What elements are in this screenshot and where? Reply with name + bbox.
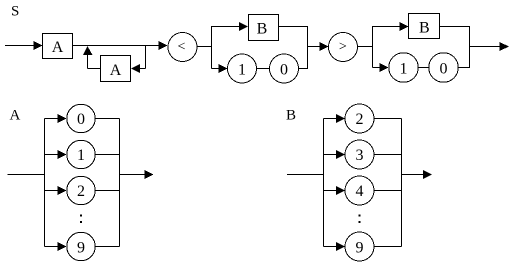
- wire A-diagram row1 in: [45, 154, 59, 156]
- circle 0 group1: [270, 54, 299, 83]
- wire loop bottom right: [140, 68, 146, 70]
- svg-text:B: B: [419, 20, 430, 37]
- svg-text:3: 3: [356, 147, 364, 164]
- wire B1 out: [279, 26, 309, 28]
- arrowhead A-diagram row0: [58, 114, 67, 123]
- wire A-diagram row0 out: [95, 118, 119, 120]
- wire B-diagram row4 out: [374, 190, 402, 192]
- svg-text:A: A: [10, 108, 21, 124]
- dots A-diagram: [80, 215, 82, 217]
- wire B-diagram row3 in: [324, 154, 338, 156]
- wire B-diagram row9 in: [324, 246, 338, 248]
- arrowhead into gt-circle: [320, 42, 329, 51]
- circle 9 B-diagram: [345, 232, 374, 261]
- svg-text:2: 2: [77, 183, 85, 200]
- svg-text:0: 0: [77, 111, 85, 128]
- wire split1 left vertical: [211, 26, 213, 69]
- wire A-diagram row9 out: [95, 246, 119, 248]
- box B2: [409, 14, 440, 39]
- box A2 (loop): [101, 56, 131, 82]
- svg-text:0: 0: [280, 61, 288, 78]
- wire B-diagram row2 in: [324, 118, 338, 120]
- circle gt: [329, 33, 358, 62]
- wire A-diagram row1 out: [95, 154, 119, 156]
- wire A-diagram exit: [120, 174, 146, 176]
- wire S entry: [5, 45, 34, 47]
- svg-text:1: 1: [400, 60, 408, 77]
- arrowhead S entry: [34, 41, 43, 50]
- arrowhead A-diagram row1: [58, 150, 67, 159]
- wire B-diagram row9 out: [374, 246, 402, 248]
- wire B-diagram row2 out: [374, 118, 402, 120]
- svg-text:4: 4: [356, 183, 364, 200]
- wire B-diagram entry: [287, 174, 324, 176]
- wire 0 to merge1: [299, 68, 309, 70]
- wire B-diagram exit: [402, 174, 424, 176]
- wire final out: [470, 46, 501, 48]
- circle 2 B-diagram: [345, 104, 374, 133]
- wire loop right vertical: [145, 46, 147, 69]
- arrowhead into 1 group1: [219, 64, 228, 73]
- wire merge1 out: [308, 46, 320, 48]
- wire split2 top in: [373, 26, 401, 28]
- svg-text:S: S: [11, 4, 19, 20]
- arrowhead into B2: [400, 22, 409, 31]
- circle lt: [168, 33, 197, 62]
- circle 1 group2: [389, 53, 419, 83]
- wire B-diagram right vertical: [401, 119, 403, 247]
- arrowhead B-diagram row3: [336, 150, 345, 159]
- svg-text:1: 1: [238, 61, 246, 78]
- wire merge1 right vertical: [307, 27, 309, 69]
- svg-text:0: 0: [440, 60, 448, 77]
- wire A-diagram row2 out: [95, 190, 119, 192]
- svg-text:A: A: [110, 62, 122, 79]
- wire A-diagram row0 in: [45, 118, 59, 120]
- arrowhead B-diagram row9: [336, 242, 345, 251]
- wire A-diagram row2 in: [45, 190, 59, 192]
- wire split1 top in: [212, 26, 240, 28]
- arrowhead A-diagram row2: [58, 186, 67, 195]
- arrowhead into 1 group2: [380, 63, 389, 72]
- svg-text:B: B: [286, 108, 296, 124]
- wire 0 to merge2: [458, 67, 470, 69]
- wire A-diagram left vertical: [44, 119, 46, 247]
- arrowhead A-diagram row9: [58, 242, 67, 251]
- svg-text:A: A: [52, 39, 64, 56]
- circle 0 A-diagram: [67, 104, 96, 133]
- circle 2 A-diagram: [67, 176, 96, 205]
- circle 1 group1: [228, 54, 257, 83]
- wire B-diagram row3 out: [374, 154, 402, 156]
- wire B-diagram row4 in: [324, 190, 338, 192]
- wire A-diagram row9 in: [45, 246, 59, 248]
- wire split2 bottom in: [373, 67, 381, 69]
- dots B-diagram: [359, 215, 361, 217]
- svg-text:2: 2: [356, 111, 364, 128]
- wire merge2 right vertical: [469, 27, 471, 68]
- arrowhead B-diagram exit: [423, 170, 432, 179]
- wire loop bottom left: [88, 68, 101, 70]
- wire between 1 and 0 circles group2: [419, 67, 429, 69]
- svg-text:>: >: [339, 40, 347, 55]
- wire B2 out: [440, 26, 471, 28]
- arrowhead B-diagram row2: [336, 114, 345, 123]
- wire lt-circle to split1: [197, 46, 212, 48]
- wire loop left vertical: [87, 55, 89, 69]
- arrowhead B-diagram row4: [336, 186, 345, 195]
- circle 1 A-diagram: [67, 140, 96, 169]
- wire A-diagram entry: [8, 174, 46, 176]
- wire split1 bottom in: [212, 68, 220, 70]
- wire gt-circle to split2: [358, 46, 374, 48]
- arrowhead A-diagram exit: [145, 170, 154, 179]
- box A1: [43, 34, 73, 59]
- svg-text:9: 9: [356, 239, 364, 256]
- wire split2 left vertical: [372, 26, 374, 68]
- wire B-diagram left vertical: [323, 119, 325, 247]
- arrowhead into B1: [239, 22, 248, 31]
- arrowhead loop up: [83, 46, 93, 55]
- box B1: [249, 15, 279, 41]
- arrowhead final out: [500, 42, 510, 51]
- circle 3 B-diagram: [345, 140, 374, 169]
- svg-text:<: <: [178, 40, 186, 55]
- svg-text:9: 9: [77, 239, 85, 256]
- wire between 1 and 0 circles group1: [257, 68, 270, 70]
- wire A1 to loop: [73, 45, 159, 47]
- circle 9 A-diagram: [67, 232, 96, 261]
- arrowhead into lt-circle: [159, 41, 168, 50]
- svg-text:1: 1: [77, 147, 85, 164]
- circle 4 B-diagram: [345, 176, 374, 205]
- circle 0 group2: [429, 53, 459, 83]
- svg-text:B: B: [257, 20, 268, 37]
- arrowhead loop into A2: [131, 64, 140, 73]
- wire A-diagram right vertical: [119, 119, 121, 247]
